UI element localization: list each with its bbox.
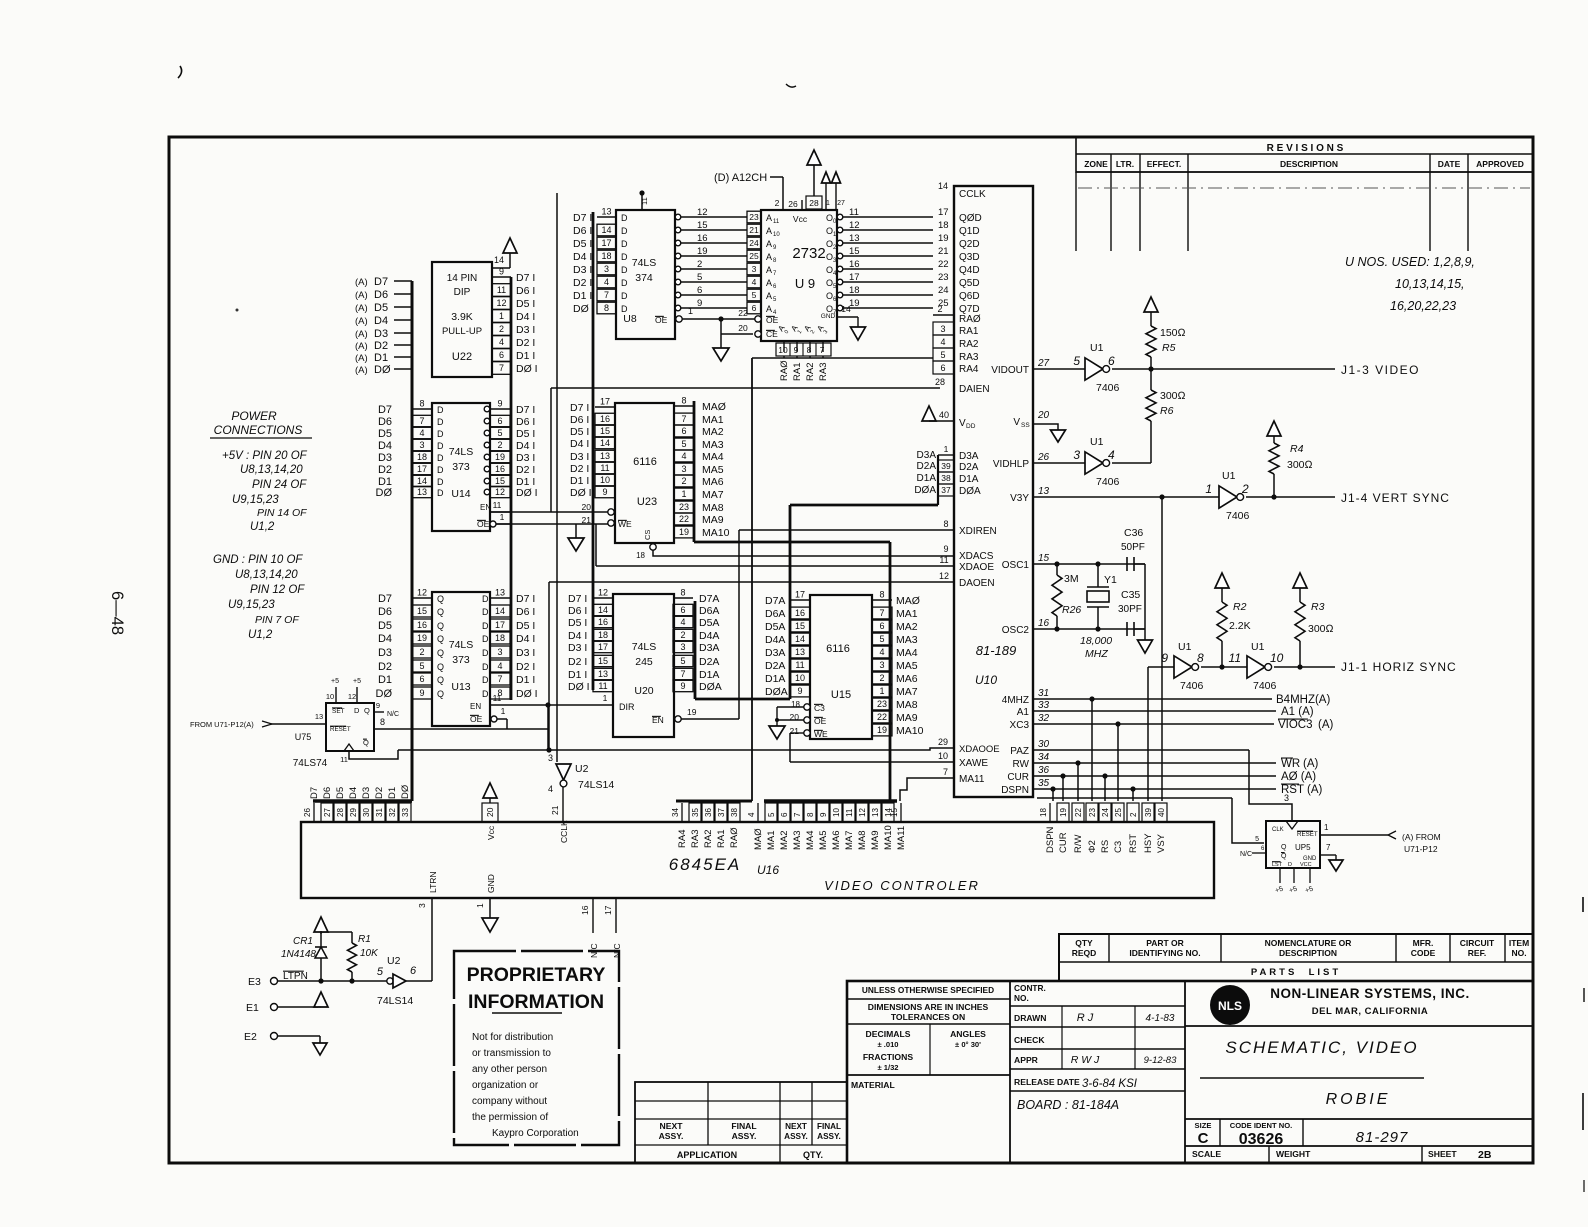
svg-text:MHZ: MHZ <box>1085 648 1108 660</box>
svg-text:MA2: MA2 <box>702 426 724 438</box>
svg-text:D4A: D4A <box>765 634 785 646</box>
svg-text:D1A: D1A <box>917 473 937 484</box>
svg-text:D6A: D6A <box>699 605 719 617</box>
pin 1 GND of U16 <box>489 898 491 918</box>
svg-text:2: 2 <box>775 198 780 208</box>
svg-text:3: 3 <box>417 903 427 908</box>
svg-text:22: 22 <box>938 259 949 270</box>
svg-text:MA1: MA1 <box>896 608 918 620</box>
svg-text:10: 10 <box>773 232 780 238</box>
svg-text:C35: C35 <box>1121 589 1140 601</box>
svg-text:3: 3 <box>1073 448 1080 462</box>
svg-text:17: 17 <box>601 238 611 248</box>
inverter U2b 74LS14 <box>387 978 393 984</box>
svg-text:23: 23 <box>938 272 949 283</box>
svg-text:4: 4 <box>499 337 504 347</box>
svg-text:R5: R5 <box>1162 342 1176 354</box>
svg-text:2: 2 <box>499 324 504 334</box>
svg-text:7406: 7406 <box>1253 680 1277 692</box>
svg-text:5: 5 <box>697 272 702 283</box>
svg-text:A: A <box>766 304 772 314</box>
svg-text:2.2K: 2.2K <box>1229 620 1251 632</box>
svg-text:3: 3 <box>681 464 686 474</box>
svg-text:20: 20 <box>1037 410 1050 421</box>
svg-text:16: 16 <box>1038 618 1050 629</box>
svg-text:N/C: N/C <box>589 943 599 958</box>
wire CS drop <box>1117 724 1119 801</box>
svg-text:C3: C3 <box>1113 841 1124 853</box>
pin O2 bubble U9 <box>837 240 843 246</box>
svg-text:5: 5 <box>419 661 424 671</box>
svg-text:D4: D4 <box>348 787 359 799</box>
wire D bus bar at 6845 <box>313 799 412 803</box>
svg-text:3: 3 <box>752 264 757 274</box>
svg-text:DIR: DIR <box>619 702 635 712</box>
svg-text:11: 11 <box>600 463 609 473</box>
svg-text:D3A: D3A <box>959 451 979 462</box>
wire V3Y <box>1033 496 1219 498</box>
wire horiz sync out <box>1274 666 1335 668</box>
svg-text:2732: 2732 <box>792 245 825 262</box>
svg-text:17: 17 <box>938 207 949 218</box>
wire RA bus bar 6845 <box>676 800 752 803</box>
svg-text:D1: D1 <box>387 787 398 799</box>
svg-text:OSC1: OSC1 <box>1002 560 1030 571</box>
svg-text:CODE: CODE <box>1411 948 1436 958</box>
svg-text:SS: SS <box>1021 422 1030 429</box>
svg-text:13: 13 <box>849 233 860 244</box>
svg-text:10: 10 <box>1270 651 1284 665</box>
svg-text:WR: WR <box>1281 758 1300 770</box>
svg-text:28: 28 <box>935 377 945 387</box>
pin CCLK 21 of U16 <box>562 787 564 822</box>
svg-text:3M: 3M <box>1064 573 1079 585</box>
svg-text:D4 I: D4 I <box>570 438 589 450</box>
svg-text:39: 39 <box>1144 808 1153 817</box>
svg-text:D3 I: D3 I <box>516 324 535 336</box>
svg-text:(A): (A) <box>355 303 368 314</box>
svg-text:5: 5 <box>681 439 686 449</box>
svg-text:LST: LST <box>1272 862 1283 868</box>
svg-text:24: 24 <box>1101 808 1110 817</box>
svg-text:18: 18 <box>938 220 949 231</box>
svg-text:MA3: MA3 <box>702 439 724 451</box>
svg-text:PULL-UP: PULL-UP <box>442 326 482 337</box>
svg-text:11: 11 <box>773 219 780 225</box>
svg-text:D7 I: D7 I <box>568 593 587 605</box>
svg-text:U8,13,14,20: U8,13,14,20 <box>240 464 303 476</box>
ground at E2 <box>313 1043 327 1055</box>
svg-text:36: 36 <box>704 808 713 817</box>
svg-text:D3 I: D3 I <box>570 451 589 463</box>
pin 23 number <box>1086 803 1098 822</box>
svg-text:+5: +5 <box>331 678 339 685</box>
svg-text:APPROVED: APPROVED <box>1476 159 1524 169</box>
svg-text:13: 13 <box>601 207 611 217</box>
svg-text:20: 20 <box>738 323 748 333</box>
wire DAOEN vertical <box>548 582 550 750</box>
svg-text:2: 2 <box>681 476 686 486</box>
svg-text:D7 I: D7 I <box>516 272 535 284</box>
resistor R2 2.2K <box>1215 573 1229 588</box>
svg-text:PARTS LIST: PARTS LIST <box>1251 967 1341 978</box>
svg-text:V3Y: V3Y <box>1010 493 1029 504</box>
svg-text:LTRN: LTRN <box>428 871 438 893</box>
svg-text:37: 37 <box>941 485 951 495</box>
svg-text:33: 33 <box>1038 700 1050 711</box>
svg-text:7406: 7406 <box>1226 510 1250 522</box>
power +5 at U22 <box>503 238 517 253</box>
svg-text:D5: D5 <box>378 620 392 632</box>
svg-text:74LS: 74LS <box>449 639 474 651</box>
svg-text:300Ω: 300Ω <box>1287 459 1313 471</box>
svg-text:5: 5 <box>680 656 685 666</box>
svg-text:D4 I: D4 I <box>568 630 587 642</box>
svg-text:8: 8 <box>806 812 815 817</box>
pin Q bubble U8 row 6 <box>675 227 681 233</box>
svg-text:PAZ: PAZ <box>1010 746 1029 757</box>
resistor R6 300 <box>1150 369 1152 390</box>
svg-text:CHECK: CHECK <box>1014 1035 1045 1045</box>
svg-text:XAWE: XAWE <box>959 758 988 769</box>
svg-text:U9,15,23: U9,15,23 <box>228 599 275 611</box>
svg-text:DØ: DØ <box>400 784 411 799</box>
svg-text:19: 19 <box>687 707 697 717</box>
pin Q bubble U8 row 3 <box>675 266 681 272</box>
svg-text:4: 4 <box>1108 448 1115 462</box>
svg-text:SCALE: SCALE <box>1192 1149 1221 1159</box>
svg-text:7: 7 <box>497 674 502 684</box>
svg-text:3: 3 <box>940 324 945 334</box>
svg-text:MAØ: MAØ <box>896 595 920 607</box>
svg-text:CS: CS <box>643 530 652 540</box>
svg-text:XDAOE: XDAOE <box>959 562 994 573</box>
junction DAOEN-clock <box>546 747 551 752</box>
svg-text:5: 5 <box>940 350 945 360</box>
pin Q bubble U8 row 7 <box>675 214 681 220</box>
border frame <box>169 137 1533 1163</box>
svg-text:(A): (A) <box>1318 719 1334 731</box>
svg-text:25: 25 <box>749 251 759 261</box>
svg-text:D6A: D6A <box>765 608 785 620</box>
svg-text:2: 2 <box>879 673 884 683</box>
svg-text:Vcc: Vcc <box>793 214 808 224</box>
svg-text:EFFECT.: EFFECT. <box>1147 159 1181 169</box>
svg-text:R E V I S I O N S: R E V I S I O N S <box>1267 143 1344 154</box>
svg-text:81-189: 81-189 <box>976 643 1016 658</box>
svg-text:8: 8 <box>680 588 685 598</box>
diode CR1 1N4148 <box>320 932 322 947</box>
svg-text:D: D <box>621 252 628 262</box>
svg-text:1: 1 <box>944 444 949 454</box>
svg-text:D: D <box>437 488 444 498</box>
svg-text:6: 6 <box>697 285 702 296</box>
svg-text:81-297: 81-297 <box>1356 1129 1409 1146</box>
svg-text:50PF: 50PF <box>1121 542 1145 553</box>
wire DAIEN riser <box>550 388 552 512</box>
svg-text:EN: EN <box>480 503 491 512</box>
svg-text:16: 16 <box>495 464 505 474</box>
pin 1 of UP5 <box>1320 834 1388 836</box>
svg-text:14: 14 <box>417 476 427 486</box>
svg-text:10: 10 <box>778 345 788 355</box>
svg-text:U1: U1 <box>1251 641 1265 653</box>
pin Q bubble U8 row 5 <box>675 240 681 246</box>
svg-text:GND : PIN 10 OF: GND : PIN 10 OF <box>213 554 303 566</box>
svg-text:4: 4 <box>681 451 686 461</box>
pin 12 of U75 <box>356 687 358 703</box>
svg-text:CODE IDENT NO.: CODE IDENT NO. <box>1230 1121 1292 1130</box>
svg-text:13: 13 <box>871 808 880 817</box>
ground at U16 pin 1 <box>482 918 498 932</box>
svg-text:2: 2 <box>680 630 685 640</box>
svg-text:20: 20 <box>485 807 495 817</box>
svg-text:D5A: D5A <box>765 621 785 633</box>
svg-text:D2A: D2A <box>699 656 719 668</box>
svg-text:74LS14: 74LS14 <box>377 995 413 1007</box>
svg-text:7406: 7406 <box>1096 382 1120 394</box>
svg-text:4-1-83: 4-1-83 <box>1146 1013 1175 1024</box>
wire RS drop <box>1104 776 1106 801</box>
svg-text:R6: R6 <box>1160 405 1174 417</box>
svg-text:D: D <box>437 465 444 475</box>
svg-text:RA4: RA4 <box>959 364 979 375</box>
svg-text:5: 5 <box>1073 354 1080 368</box>
svg-text:LTPN: LTPN <box>283 971 308 982</box>
svg-text:14: 14 <box>938 181 948 191</box>
pin 11 clock of U75 <box>349 750 398 759</box>
pin Q bubble U14 row 1 <box>484 478 490 484</box>
svg-text:4: 4 <box>940 337 945 347</box>
wire VIDOUT <box>1033 368 1085 370</box>
svg-text:A: A <box>766 252 772 262</box>
svg-text:6: 6 <box>410 965 417 977</box>
U9 bottom address pins <box>783 341 785 352</box>
svg-text:28: 28 <box>336 808 345 817</box>
svg-text:Vcc: Vcc <box>486 825 496 840</box>
svg-text:U23: U23 <box>637 496 657 508</box>
svg-text:U16: U16 <box>757 863 779 877</box>
svg-text:DØ I: DØ I <box>516 688 538 700</box>
svg-text:D7: D7 <box>374 276 388 288</box>
svg-text:25: 25 <box>1114 808 1123 817</box>
svg-text:MA1: MA1 <box>766 830 777 850</box>
svg-text:27: 27 <box>323 808 332 817</box>
svg-text:7: 7 <box>680 669 685 679</box>
wire UP5 D feed <box>1232 798 1264 843</box>
svg-text:14: 14 <box>601 225 611 235</box>
svg-text:QØD: QØD <box>959 213 982 224</box>
svg-text:26: 26 <box>1037 452 1050 463</box>
svg-text:D5: D5 <box>374 302 388 314</box>
svg-text:D7: D7 <box>309 787 320 799</box>
svg-text:18: 18 <box>417 452 427 462</box>
svg-text:NOMENCLATURE OR: NOMENCLATURE OR <box>1265 938 1352 948</box>
pin A12 of U9 <box>782 177 784 210</box>
svg-text:D5 I: D5 I <box>516 620 535 632</box>
pin Q bubble U14 row 6 <box>484 418 490 424</box>
pin O3 bubble U9 <box>837 253 843 259</box>
pin 13 number <box>869 803 881 822</box>
svg-text:D5 I: D5 I <box>516 428 535 440</box>
svg-text:9: 9 <box>680 681 685 691</box>
inverter U1c 7406 <box>1219 486 1237 508</box>
svg-text:D5 I: D5 I <box>568 617 587 629</box>
svg-text:300Ω: 300Ω <box>1160 390 1186 402</box>
svg-text:12: 12 <box>495 487 505 497</box>
svg-text:11: 11 <box>640 197 649 205</box>
svg-text:20: 20 <box>582 502 592 512</box>
svg-text:16: 16 <box>417 620 427 630</box>
svg-text:R2: R2 <box>1233 601 1247 613</box>
RAM U23 <box>615 403 674 543</box>
svg-text:9: 9 <box>819 812 828 817</box>
svg-text:D6: D6 <box>374 289 388 301</box>
svg-text:(A): (A) <box>355 290 368 301</box>
svg-text:ASSY.: ASSY. <box>732 1131 757 1141</box>
svg-text:29: 29 <box>349 808 358 817</box>
scale weight sheet row <box>1185 1145 1533 1147</box>
wire vidhlp out <box>1112 462 1151 464</box>
svg-text:373: 373 <box>452 654 470 666</box>
svg-text:ANGLES: ANGLES <box>950 1029 986 1039</box>
svg-text:PIN 12 OF: PIN 12 OF <box>250 584 305 596</box>
svg-text:O: O <box>826 278 833 288</box>
svg-text:D: D <box>354 706 360 715</box>
wire DI bus vertical <box>510 277 513 700</box>
pin 14 of U22 <box>492 267 510 269</box>
RA pin stack of U10 <box>933 314 954 316</box>
proprietary small text <box>472 1032 579 1139</box>
svg-text:Q6D: Q6D <box>959 291 980 302</box>
wire PHI2 drop <box>1091 699 1093 801</box>
svg-text:38: 38 <box>941 473 951 483</box>
svg-text:9: 9 <box>697 298 702 309</box>
svg-text:ROBIE: ROBIE <box>1326 1091 1391 1108</box>
wire RST drop <box>1132 789 1134 801</box>
svg-text:XDACS: XDACS <box>959 551 994 562</box>
svg-text:10K: 10K <box>360 948 379 959</box>
pin Q bubble U14 row 2 <box>484 466 490 472</box>
svg-text:14: 14 <box>841 304 851 314</box>
svg-text:14: 14 <box>495 606 505 616</box>
svg-text:MA4: MA4 <box>896 647 918 659</box>
svg-text:D1 I: D1 I <box>573 290 592 302</box>
svg-text:2: 2 <box>497 440 502 450</box>
svg-text:PIN 7 OF: PIN 7 OF <box>255 614 299 626</box>
pin 35 number <box>689 803 701 822</box>
svg-text:9: 9 <box>797 686 802 696</box>
svg-text:2: 2 <box>1241 482 1249 496</box>
svg-text:4: 4 <box>752 277 757 287</box>
svg-text:R3: R3 <box>1311 601 1325 613</box>
svg-text:3: 3 <box>879 660 884 670</box>
svg-text:U 9: U 9 <box>795 276 815 291</box>
svg-text:any other person: any other person <box>472 1064 547 1075</box>
svg-text:D3 I: D3 I <box>568 642 587 654</box>
svg-text:C: C <box>1198 1130 1209 1147</box>
svg-text:RELEASE DATE: RELEASE DATE <box>1014 1077 1080 1087</box>
svg-text:DSPN: DSPN <box>1045 826 1056 853</box>
flip-flop U75 <box>326 703 374 751</box>
svg-text:TOLERANCES ON: TOLERANCES ON <box>891 1012 965 1022</box>
svg-text:MA8: MA8 <box>857 830 868 850</box>
svg-text:Q: Q <box>1281 844 1287 851</box>
svg-text:15: 15 <box>600 426 610 436</box>
wire EN/OE to U23 gates <box>490 511 608 513</box>
svg-text:1: 1 <box>1324 823 1329 832</box>
svg-text:7: 7 <box>419 416 424 426</box>
svg-text:D7: D7 <box>378 593 392 605</box>
resistor R3 300 <box>1293 573 1307 588</box>
svg-text:U8,13,14,20: U8,13,14,20 <box>235 569 298 581</box>
svg-text:18,000: 18,000 <box>1080 635 1112 647</box>
title block outer <box>847 981 1533 1163</box>
gate array U10 <box>954 186 1033 797</box>
svg-text:ITEM: ITEM <box>1509 938 1529 948</box>
svg-text:5: 5 <box>879 634 884 644</box>
wire B4MHZ <box>1033 698 1272 700</box>
svg-text:23: 23 <box>749 212 759 222</box>
svg-text:DAIEN: DAIEN <box>959 384 990 395</box>
UP5 bottom pins <box>1279 868 1281 883</box>
svg-text:XC3: XC3 <box>1010 720 1030 731</box>
svg-text:NEXT: NEXT <box>660 1121 684 1131</box>
svg-text:3: 3 <box>604 264 609 274</box>
wire A0 <box>1033 775 1276 777</box>
pin 10 of U75 <box>335 687 337 703</box>
ground at U15 gates <box>776 707 778 726</box>
svg-text:12: 12 <box>858 808 867 817</box>
svg-text:Q: Q <box>437 634 444 644</box>
svg-text:RA2: RA2 <box>703 830 714 848</box>
scan artifacts right edge <box>1582 897 1584 912</box>
svg-text:RW: RW <box>1013 759 1030 770</box>
svg-text:MA7: MA7 <box>896 686 918 698</box>
svg-text:17: 17 <box>849 272 860 283</box>
svg-text:15: 15 <box>795 621 805 631</box>
ground at UP5 <box>1329 860 1343 871</box>
svg-text:MA10: MA10 <box>883 825 894 850</box>
pin Q bubble U14 row 5 <box>484 430 490 436</box>
svg-text:Q2D: Q2D <box>959 239 980 250</box>
svg-text:U10: U10 <box>975 673 997 687</box>
svg-text:74LS: 74LS <box>449 446 474 458</box>
svg-text:74LS: 74LS <box>632 257 657 269</box>
svg-text:1: 1 <box>475 903 485 908</box>
resistor pack U22 <box>432 262 492 377</box>
pin 15 number <box>900 803 902 822</box>
power +5 at CR1 <box>314 917 328 932</box>
wire HSY riser <box>1147 667 1149 801</box>
svg-text:MA2: MA2 <box>896 621 918 633</box>
svg-text:QTY.: QTY. <box>803 1150 823 1160</box>
svg-text:MA7: MA7 <box>702 489 724 501</box>
svg-text:ZONE: ZONE <box>1084 159 1108 169</box>
wire VIOC3 <box>1033 723 1274 725</box>
svg-text:the permission of: the permission of <box>472 1112 548 1123</box>
svg-text:8: 8 <box>380 717 385 727</box>
svg-text:DØA: DØA <box>765 686 788 698</box>
svg-text:3: 3 <box>548 753 553 763</box>
svg-text:VCC: VCC <box>1300 862 1312 868</box>
svg-text:2: 2 <box>1129 812 1138 817</box>
svg-text:D: D <box>621 291 628 301</box>
pin Vcc 20 of U16 <box>483 783 497 798</box>
svg-text:22: 22 <box>679 514 689 524</box>
pin 5 number <box>765 803 777 822</box>
svg-text:9: 9 <box>419 688 424 698</box>
